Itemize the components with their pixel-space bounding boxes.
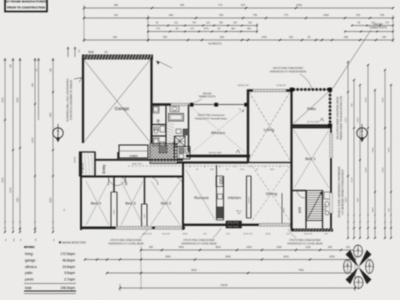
scan noise overlay — [0, 0, 1, 1]
robe bed3/bed2 — [141, 204, 143, 227]
top dimension line 4b — [345, 31, 393, 33]
STAIRS (hatched) near linen — [150, 144, 177, 164]
ens fixtures — [324, 192, 331, 199]
tiled hatch strip bath — [167, 122, 175, 125]
bath tub — [169, 114, 184, 122]
bottom dim line C — [107, 272, 355, 274]
shower crosshatch box — [175, 136, 186, 147]
stove dark block on bottom wall — [226, 221, 242, 228]
left vertical dimension lines — [4, 59, 6, 233]
right datum circle symbol — [357, 128, 367, 138]
KITCHEN bench — [216, 165, 218, 220]
bottom wall WIR/ens segment — [292, 229, 334, 232]
bed1 top wall (under patio) — [291, 127, 331, 129]
hall fixtures block right of stairs — [173, 141, 175, 160]
bath vanity — [170, 106, 179, 112]
bed1 east wall with window — [330, 127, 332, 229]
top dimension line 2 — [84, 17, 393, 19]
bottom dim line B — [85, 259, 355, 261]
robe bed4/bed3 — [110, 192, 112, 228]
garage truss diagonals — [84, 60, 150, 142]
laundry fixtures — [153, 106, 159, 113]
bed2 door arc — [175, 177, 183, 186]
top dimension line 1 — [84, 7, 393, 9]
BOTTOM WALL with windows — [81, 227, 185, 230]
top dimension line 5 — [84, 39, 393, 41]
smoke detector legend — [59, 241, 61, 243]
WC — [154, 128, 158, 133]
alfresco east wall / living west wall — [247, 90, 249, 163]
living truss diagonals — [249, 92, 290, 160]
note box top-left — [5, 0, 47, 12]
left datum circle symbol — [53, 128, 63, 138]
patio south wall — [291, 124, 330, 126]
kitchen island / pantry strip — [246, 176, 248, 218]
patio top wall dotted — [292, 89, 330, 91]
bottom dim line D (overall) — [120, 287, 355, 289]
bedrooms top wall — [81, 176, 183, 178]
stairs lower — [307, 191, 323, 221]
GARAGE walls — [82, 55, 153, 60]
compass rose north point — [346, 250, 359, 267]
alfresco open north edge with posts — [190, 104, 248, 106]
PORCH — [80, 152, 96, 176]
patio east edge dotted — [329, 90, 331, 127]
ENTRY — [94, 152, 96, 176]
top dimension line 4a — [148, 31, 257, 33]
top dimension line 3a — [148, 25, 257, 27]
living top wall with window — [247, 89, 292, 91]
dining/WIR east wall — [290, 89, 292, 229]
dining truss diagonals — [252, 166, 290, 221]
entry double door arcs — [109, 177, 118, 186]
house west wall — [80, 152, 82, 230]
dim ticks along top wall — [189, 166, 191, 168]
right vertical dimension lines — [347, 62, 349, 238]
ens window hatch on east wall — [330, 193, 333, 213]
alfresco south wall — [186, 155, 250, 158]
bottom dim line A — [141, 249, 355, 251]
patio posts — [328, 88, 332, 92]
corridor north wall — [95, 159, 183, 161]
top dimension line 3b — [352, 25, 393, 27]
robe strip left of WIR — [281, 193, 283, 226]
powder/WC block — [177, 147, 190, 160]
bed1 south wall + door — [291, 190, 306, 192]
laundry internal walls — [165, 104, 167, 150]
rumpus/kitchen/dining top wall — [177, 161, 248, 163]
LINEN closet — [119, 145, 148, 158]
vertical connectors top dims — [147, 15, 149, 42]
bed3/bed2 divider — [144, 176, 146, 204]
smoke detector dashed line in corridor — [128, 165, 290, 167]
step connector walls bottom — [182, 224, 184, 231]
LAUNDRY/BATH block top wall — [152, 103, 171, 106]
bed4/bed3 divider — [113, 176, 115, 192]
bed2/rumpus divider wall — [182, 162, 184, 229]
